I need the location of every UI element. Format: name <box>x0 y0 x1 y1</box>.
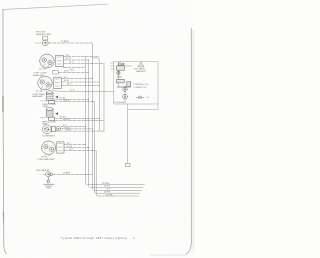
side marker lamp <box>46 172 51 177</box>
headlamp lower connector <box>57 142 64 153</box>
svg-text:18 T: 18 T <box>64 77 69 79</box>
wire 18 LG headlamp lower <box>64 147 89 149</box>
wire 18 BRN marker to bus <box>48 42 91 44</box>
svg-text:18 DBL: 18 DBL <box>106 194 114 196</box>
switch wire right <box>124 65 132 67</box>
svg-text:18 T: 18 T <box>69 62 74 64</box>
dash harness connector <box>125 164 130 167</box>
svg-text:18 T: 18 T <box>67 143 72 145</box>
instrument panel box <box>114 62 158 105</box>
bus wire V5 <box>103 64 105 132</box>
wire 18 T inner headlamp <box>61 78 92 80</box>
front side marker lamp <box>42 40 48 46</box>
caption <box>61 236 135 240</box>
panel chain stem <box>124 86 126 105</box>
wire 18 LG inner headlamp <box>61 81 99 83</box>
svg-text:18 BRN: 18 BRN <box>61 41 69 43</box>
svg-text:18 LG: 18 LG <box>67 146 73 148</box>
panel lamp 2 <box>123 94 128 99</box>
dimmer switch body <box>117 66 125 70</box>
side marker lamp label <box>36 169 50 172</box>
wire marker left stub 2 <box>43 173 46 175</box>
park turn lamp A arrow <box>55 96 58 99</box>
panel entry stubs <box>111 63 114 69</box>
svg-text:D1: D1 <box>147 97 149 99</box>
relay block <box>127 82 131 87</box>
svg-text:18 T: 18 T <box>106 189 111 191</box>
wire marker left stub <box>36 42 43 44</box>
wire 18 B outer headlamp ground <box>63 67 85 69</box>
wire 18 LG outer headlamp <box>63 59 88 61</box>
svg-text:18 BRN: 18 BRN <box>102 183 110 185</box>
inner headlamp connector <box>54 77 61 88</box>
wire 18 LBL park turn A <box>55 98 89 100</box>
svg-text:18 LG: 18 LG <box>64 80 70 82</box>
svg-text:HEADLAMP: HEADLAMP <box>32 95 44 98</box>
svg-text:18 PPL: 18 PPL <box>63 100 71 102</box>
switch lower contacts <box>117 86 131 87</box>
outer headlamp label <box>43 65 51 68</box>
wire 18 T inner headlamp low <box>61 85 99 87</box>
cornering lamp label <box>42 136 55 138</box>
svg-text:NO 2D1: NO 2D1 <box>39 69 47 71</box>
park turn lamp B label <box>42 120 56 125</box>
wire 18 PPL park turn A <box>55 101 95 103</box>
svg-text:18 PPL: 18 PPL <box>63 119 71 121</box>
bus wire V7 <box>96 151 138 196</box>
diode symbol <box>136 96 144 99</box>
wire 18 B cornering <box>55 130 104 132</box>
wire 18 BRN side marker <box>53 173 93 175</box>
headlamp lower <box>42 141 56 155</box>
outer headlamp <box>40 54 55 68</box>
park turn lamp A label <box>43 103 57 108</box>
wire 20 B inner headlamp to panel <box>52 90 114 92</box>
svg-text:CONNECTOR: CONNECTOR <box>134 87 147 89</box>
light switch body <box>117 79 125 83</box>
wire 18 PPL park turn B <box>55 119 104 121</box>
front side marker lamp label <box>36 31 52 36</box>
svg-text:18 LG: 18 LG <box>104 186 110 188</box>
bus wire V4 <box>92 58 99 131</box>
panel box step <box>128 104 158 109</box>
panel lamp 1 <box>123 87 127 91</box>
svg-text:18 B: 18 B <box>70 69 75 71</box>
svg-text:HARNESS: HARNESS <box>136 70 146 73</box>
wire 18 T outer headlamp low <box>63 63 104 65</box>
bus wire V1 <box>86 57 145 185</box>
svg-text:18 T: 18 T <box>67 84 72 86</box>
park turn lamp B connector <box>49 117 55 120</box>
wire 18 LG cornering <box>61 128 93 130</box>
outer headlamp connector <box>56 55 63 66</box>
bus wire V6 <box>94 102 140 194</box>
wire 18 T headlamp lower low <box>64 150 96 152</box>
front park and turn lamp A <box>46 92 53 100</box>
svg-text:18 T: 18 T <box>69 149 74 151</box>
inner headlamp <box>38 76 53 90</box>
inner headlamp label <box>41 87 49 90</box>
svg-text:Typical 1981 through 1987 Chev: Typical 1981 through 1987 Chevy lighting <box>61 236 127 240</box>
wire 18 B splice <box>58 71 88 73</box>
svg-text:NO 2A: NO 2A <box>36 90 43 93</box>
svg-text:18 LG: 18 LG <box>66 58 72 60</box>
svg-text:18 PPL: 18 PPL <box>104 192 112 194</box>
svg-text:INST PANEL: INST PANEL <box>134 67 146 70</box>
cornering lamp <box>42 125 51 134</box>
warning triangle <box>138 62 144 67</box>
svg-text:18 T: 18 T <box>66 55 71 57</box>
park turn lamp B left stub <box>41 117 46 119</box>
bus wire V3 <box>92 43 141 190</box>
wire 18 T outer headlamp <box>63 56 99 58</box>
junction dots <box>85 59 100 151</box>
switch chain stem <box>117 63 119 87</box>
bundle wire labels <box>102 183 114 197</box>
switch lamp <box>117 71 120 74</box>
dimmer switch circles <box>118 63 121 66</box>
svg-text:TO IGN SW: TO IGN SW <box>114 102 124 104</box>
park turn lamp A connector <box>49 101 55 104</box>
wire 18 T cornering <box>61 126 86 128</box>
park turn lamp B arrow <box>55 112 58 115</box>
bus wire V2 <box>89 60 144 187</box>
svg-text:4: 4 <box>133 237 135 240</box>
svg-text:18 B: 18 B <box>66 130 71 132</box>
dash harness drop wire <box>127 109 129 163</box>
cornering lamp connector <box>52 126 56 132</box>
ground G100 <box>47 177 49 180</box>
splice connector <box>53 71 59 74</box>
svg-text:20 B: 20 B <box>70 90 75 92</box>
headlamp lower label <box>44 154 51 156</box>
svg-text:18 BRN: 18 BRN <box>63 173 71 175</box>
park turn lamp A left stub <box>41 100 46 102</box>
wire 18 DBL park turn B <box>55 117 100 119</box>
front side marker lamp connector <box>43 36 48 40</box>
front park and turn lamp B <box>46 109 53 117</box>
panel text <box>134 67 146 73</box>
switch contact marks <box>117 76 122 78</box>
svg-text:18 B: 18 B <box>64 71 69 73</box>
svg-text:CORNERING: CORNERING <box>42 136 55 138</box>
svg-text:COMP HEADLAMP: COMP HEADLAMP <box>37 158 55 161</box>
wire 18 T headlamp lower <box>64 144 86 146</box>
svg-text:MARKER LAMP: MARKER LAMP <box>36 33 52 36</box>
svg-text:SIDE MARKER: SIDE MARKER <box>36 169 50 172</box>
